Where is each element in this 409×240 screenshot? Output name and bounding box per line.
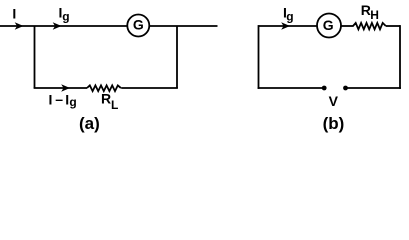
wire: [149, 25, 217, 27]
node terminal left: [322, 86, 327, 91]
wire: [121, 87, 178, 89]
galvanometer G (b): [317, 14, 341, 38]
svg-text:V: V: [329, 93, 339, 109]
svg-text:(a): (a): [79, 114, 100, 133]
wire: [341, 25, 354, 27]
svg-text:G: G: [323, 17, 334, 33]
wire: [258, 87, 325, 89]
galvanometer G (a): [127, 15, 149, 37]
wire: [399, 25, 401, 89]
wire: [0, 25, 128, 27]
wire: [34, 26, 36, 88]
svg-text:(b): (b): [323, 114, 345, 133]
wire: [259, 25, 318, 27]
svg-text:g: g: [62, 9, 69, 23]
resistor RH: [353, 23, 386, 29]
svg-text:H: H: [370, 8, 379, 22]
svg-text:R: R: [101, 91, 111, 107]
wire: [176, 26, 178, 88]
svg-text:g: g: [286, 9, 293, 23]
wire: [386, 25, 400, 27]
svg-text:g: g: [69, 95, 76, 109]
svg-text:–: –: [55, 91, 63, 107]
svg-text:G: G: [133, 17, 144, 33]
svg-text:I: I: [12, 5, 16, 21]
wire: [346, 87, 401, 89]
wire: [34, 87, 87, 89]
svg-text:I: I: [49, 92, 53, 108]
node terminal right: [343, 86, 348, 91]
resistor RL: [87, 85, 121, 91]
current arrow Ig (b): [281, 22, 290, 30]
wire: [258, 25, 260, 89]
current arrow I: [15, 22, 24, 30]
svg-text:L: L: [111, 98, 118, 112]
current arrow I minus Ig: [61, 84, 70, 92]
current arrow Ig: [53, 22, 62, 30]
